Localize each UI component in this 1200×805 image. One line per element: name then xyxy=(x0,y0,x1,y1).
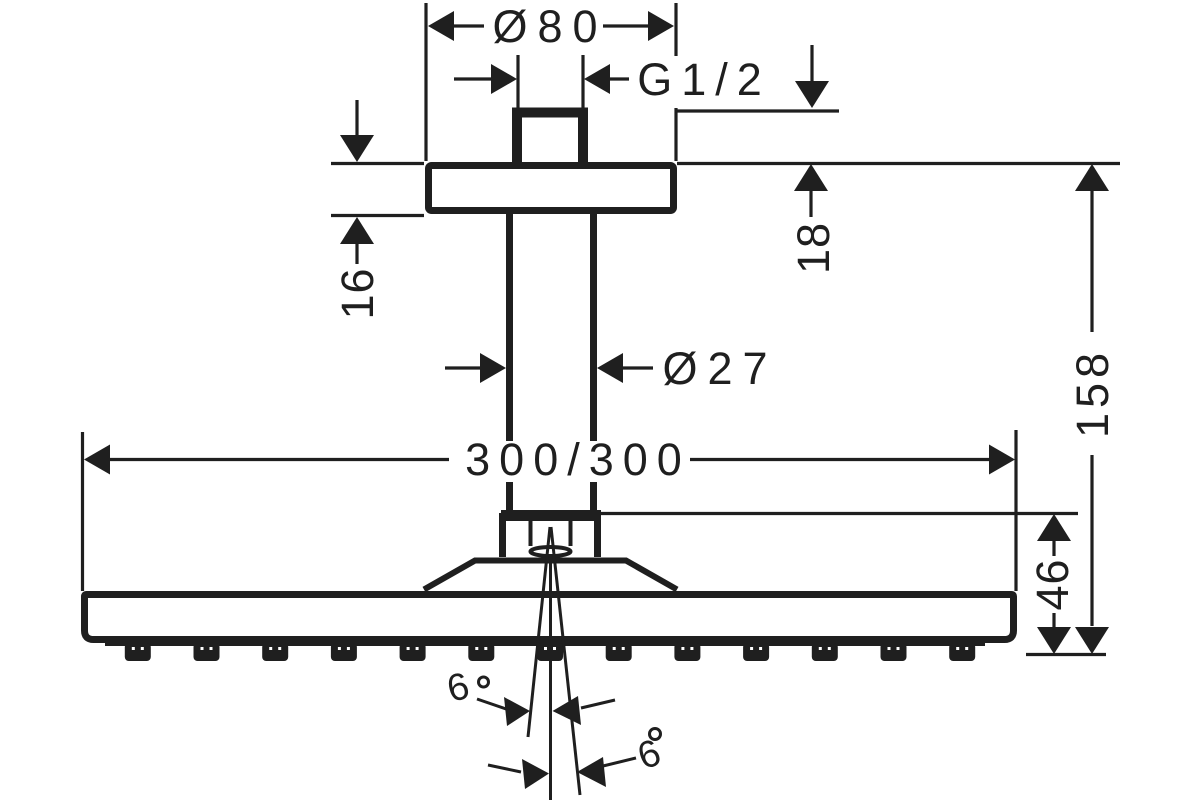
pipe left wall xyxy=(506,214,513,511)
arrow 16 down xyxy=(355,100,358,136)
union nut left side xyxy=(499,513,506,557)
6° lower-right arrow xyxy=(577,757,606,787)
dim 300/300 arrow left xyxy=(84,445,110,475)
dim 158 lower shaft xyxy=(1090,455,1093,626)
ceiling flange xyxy=(429,166,674,211)
dimension Ø80 line right shaft xyxy=(603,24,648,27)
pipe right wall xyxy=(590,214,597,511)
nut inner dome xyxy=(531,547,571,556)
connector nut (threaded G1/2 stub) xyxy=(517,113,583,163)
extension line 300/300 left xyxy=(81,432,84,591)
extension line 300/300 right xyxy=(1014,430,1017,591)
nozzle tab highlights xyxy=(132,647,968,650)
dim 46 arrow up xyxy=(1037,514,1071,541)
arrow Ø27 right (points left) xyxy=(597,353,623,383)
nut inner pipe left xyxy=(529,521,533,546)
ceiling reference line right (flange top) xyxy=(677,162,1120,165)
svg-text:46: 46 xyxy=(1027,558,1078,610)
dim 158 arrow up xyxy=(1075,164,1109,191)
bottom reference line right xyxy=(1026,653,1106,656)
dim 300/300 right shaft xyxy=(690,458,989,461)
shower head body xyxy=(85,595,1014,640)
extension line G1/2 left xyxy=(516,55,519,115)
extension line left of Ø80 xyxy=(424,3,427,161)
spray cone right line xyxy=(551,527,580,795)
spray plate line xyxy=(105,643,985,646)
pipe collar bar xyxy=(501,510,601,521)
svg-text:Ø27: Ø27 xyxy=(662,343,777,394)
svg-text:16: 16 xyxy=(332,267,383,319)
arrow down to nut top level xyxy=(810,45,813,82)
nozzle tabs xyxy=(125,643,975,661)
arrow G1/2 right (points left) xyxy=(584,64,610,94)
dimension Ø80 line left shaft xyxy=(454,24,484,27)
reference line nut top level xyxy=(675,109,839,112)
dim 46 top reference line xyxy=(601,512,1078,515)
svg-text:Ø80: Ø80 xyxy=(492,1,607,52)
svg-text:300/300: 300/300 xyxy=(465,434,691,485)
dim 158 arrow down xyxy=(1075,627,1109,654)
svg-text:158: 158 xyxy=(1067,348,1118,438)
spray cone left line xyxy=(528,527,550,737)
arrow 16 up xyxy=(340,217,374,244)
spray centre line xyxy=(549,556,552,800)
6° upper-right arrow xyxy=(553,696,582,725)
dim 16 left lines xyxy=(331,162,424,165)
arrow G1/2 left (points right) xyxy=(491,64,517,94)
mount trapezoid xyxy=(424,561,677,590)
nut inner pipe right xyxy=(569,521,573,546)
svg-text:18: 18 xyxy=(788,222,839,274)
dim 46 arrow down xyxy=(1052,613,1055,628)
arrow Ø80 left xyxy=(428,11,454,41)
6° upper-left arrow xyxy=(477,699,509,710)
dimension G1/2 left shaft xyxy=(454,77,491,80)
arrow Ø80 right xyxy=(648,11,674,41)
dimension G1/2 right shaft xyxy=(610,77,629,80)
dim Ø27 left shaft xyxy=(445,366,480,369)
extension line G1/2 right xyxy=(581,55,584,115)
union nut right side xyxy=(594,513,601,557)
arrow 18 up xyxy=(794,164,828,191)
extension line right of Ø80 (lower) xyxy=(674,108,677,161)
dim 300/300 arrow right xyxy=(989,445,1015,475)
svg-text:G1/2: G1/2 xyxy=(637,54,771,105)
6° lower-left arrow xyxy=(488,765,521,772)
arrow Ø27 left (points right) xyxy=(480,353,506,383)
extension line right of Ø80 (upper) xyxy=(674,3,677,56)
dim Ø27 right shaft xyxy=(623,366,653,369)
